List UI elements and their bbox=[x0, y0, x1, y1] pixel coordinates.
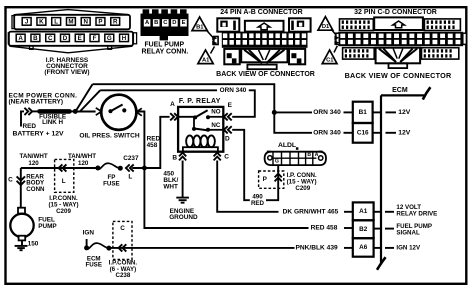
svg-text:24 PIN A-B CONNECTOR: 24 PIN A-B CONNECTOR bbox=[220, 9, 302, 16]
svg-text:BACK VIEW OF CONNECTOR: BACK VIEW OF CONNECTOR bbox=[216, 71, 315, 78]
label FP FUSE bbox=[103, 174, 120, 188]
wire junction to oil pressure switch bbox=[78, 111, 96, 113]
svg-text:WHT: WHT bbox=[163, 184, 178, 191]
svg-text:B: B bbox=[33, 35, 38, 42]
wire into A1 bbox=[344, 211, 353, 213]
label I.P.CONN. (15-WAY) C209 (below) bbox=[48, 195, 78, 215]
svg-text:G: G bbox=[275, 159, 279, 165]
svg-text:A1: A1 bbox=[202, 57, 210, 63]
svg-text:C238: C238 bbox=[116, 272, 131, 279]
svg-text:TAN/WHT: TAN/WHT bbox=[68, 153, 96, 160]
svg-text:FUSE: FUSE bbox=[85, 262, 102, 269]
svg-text:32 PIN C-D CONNECTOR: 32 PIN C-D CONNECTOR bbox=[354, 9, 437, 16]
ECM pin B2 box bbox=[353, 220, 374, 238]
svg-text:(FRONT VIEW): (FRONT VIEW) bbox=[44, 69, 89, 76]
svg-text:A: A bbox=[315, 152, 319, 158]
label IGN 12V bbox=[385, 244, 421, 251]
svg-text:F. P. RELAY: F. P. RELAY bbox=[179, 98, 221, 105]
svg-text:FUSE: FUSE bbox=[103, 180, 120, 187]
callout triangle B1 bbox=[192, 17, 213, 38]
wire B2 to ECM bbox=[374, 228, 381, 230]
wire relay C to ECM A1 (DK GRN/WHT 465) bbox=[217, 161, 278, 212]
relay pin E chevrons bbox=[224, 113, 228, 120]
label FUEL PUMP SIGNAL bbox=[385, 223, 432, 237]
connector I.P. harness row A-H bbox=[9, 32, 133, 46]
wire C237 to relay pin A bbox=[132, 117, 169, 168]
svg-text:B1: B1 bbox=[196, 24, 204, 30]
wire ORN 340 main riser diagonal bbox=[76, 84, 92, 110]
svg-text:BATTERY + 12V: BATTERY + 12V bbox=[13, 130, 65, 137]
svg-text:G: G bbox=[107, 35, 112, 42]
svg-text:RED: RED bbox=[251, 200, 265, 207]
fuse ECM FUSE bbox=[87, 243, 109, 249]
svg-text:C209: C209 bbox=[295, 185, 310, 192]
wire battery feed stub bbox=[21, 111, 24, 126]
connector I.P. conn C209 cavity L dashed box bbox=[55, 159, 74, 192]
oil pressure switch S1 bbox=[96, 95, 142, 130]
connector I.P. harness row J-R bbox=[14, 15, 130, 29]
wire fuel pump to ground 150 bbox=[21, 240, 23, 246]
svg-text:E: E bbox=[182, 20, 186, 26]
svg-text:ALDL: ALDL bbox=[278, 142, 296, 149]
svg-text:C209: C209 bbox=[56, 208, 71, 215]
ground fuel pump ground bbox=[15, 246, 28, 250]
svg-text:120: 120 bbox=[28, 160, 39, 167]
label ALDL bbox=[278, 142, 298, 150]
ground engine ground symbol bbox=[176, 198, 189, 203]
svg-text:B: B bbox=[172, 155, 177, 162]
label 490 RED bbox=[251, 194, 265, 208]
svg-text:D: D bbox=[63, 35, 68, 42]
wire relay B to engine ground bbox=[182, 161, 184, 198]
relay pin A chevrons bbox=[174, 113, 178, 120]
svg-text:ORN 340: ORN 340 bbox=[313, 109, 341, 116]
svg-text:D: D bbox=[225, 135, 230, 142]
svg-text:TAN/WHT: TAN/WHT bbox=[20, 153, 48, 160]
node battery junction bbox=[73, 109, 78, 114]
svg-text:B: B bbox=[307, 152, 311, 158]
label I.P. HARNESS CONNECTOR (FRONT VIEW) bbox=[44, 57, 89, 76]
svg-text:C1: C1 bbox=[326, 57, 334, 63]
wire rear body conn to fuel pump bbox=[20, 168, 22, 208]
svg-text:12V: 12V bbox=[398, 109, 411, 116]
connector I.P. conn C209 cavity L chevrons bbox=[59, 164, 63, 171]
svg-text:P: P bbox=[98, 18, 102, 25]
label RED 458 (vertical run) bbox=[147, 135, 161, 149]
svg-text:E: E bbox=[228, 102, 233, 109]
wire ORN 340 to C16 bbox=[274, 112, 312, 132]
callout triangle C1 bbox=[322, 46, 337, 64]
node FP fuse left bbox=[95, 166, 100, 171]
svg-text:A1: A1 bbox=[359, 208, 368, 215]
ECM boundary bracket bbox=[377, 87, 430, 270]
svg-text:C16: C16 bbox=[357, 129, 369, 136]
relay pin C chevrons bbox=[214, 153, 221, 157]
svg-text:E: E bbox=[78, 35, 82, 42]
svg-text:M: M bbox=[68, 18, 73, 25]
label 450 BLK/WHT bbox=[163, 171, 178, 191]
svg-text:K: K bbox=[39, 18, 44, 25]
svg-text:DK GRN/WHT 465: DK GRN/WHT 465 bbox=[283, 208, 339, 215]
connector 24 pin A-B (back view) bbox=[212, 18, 310, 69]
callout triangle A1 bbox=[198, 47, 215, 64]
fuse FP FUSE bbox=[98, 163, 120, 169]
label ECM FUSE bbox=[85, 255, 102, 268]
connector 32 pin C-D (back view) bbox=[334, 17, 466, 68]
wire ORN 340 to B1 bbox=[274, 111, 312, 113]
svg-text:NO: NO bbox=[211, 109, 220, 116]
ECM pin A1 box bbox=[353, 202, 374, 220]
wire B1 to ECM bbox=[373, 111, 381, 113]
wire IGN stub bbox=[86, 239, 88, 246]
svg-text:C237: C237 bbox=[123, 155, 139, 162]
svg-text:150: 150 bbox=[28, 241, 39, 248]
wire into A6 bbox=[344, 247, 353, 249]
connector I.P. conn C209 cavity P dashed box bbox=[259, 171, 284, 188]
svg-text:120: 120 bbox=[78, 160, 89, 167]
svg-text:L: L bbox=[62, 178, 66, 185]
label TAN/WHT 120 (right) bbox=[68, 153, 96, 167]
node ORN 340 branch junction bbox=[272, 110, 277, 115]
wire A1 to ECM bbox=[374, 211, 381, 213]
wire ORN 340 to relay pin E bbox=[232, 90, 255, 117]
svg-text:SIGNAL: SIGNAL bbox=[396, 230, 420, 237]
label TAN/WHT 120 (left) bbox=[20, 153, 48, 167]
wire A6 to ECM bbox=[374, 247, 381, 249]
wire 490 RED to I.P. conn P bbox=[266, 165, 278, 200]
label REAR BODY CONN bbox=[26, 174, 45, 193]
wire into C16 bbox=[344, 132, 353, 134]
svg-text:12V: 12V bbox=[398, 129, 411, 136]
label FUSIBLE LINK H bbox=[39, 114, 66, 127]
label 12V (B1) bbox=[386, 109, 411, 116]
node ECM fuse right bbox=[106, 246, 111, 251]
svg-text:A: A bbox=[18, 35, 23, 42]
svg-text:F: F bbox=[93, 35, 97, 42]
label 12V (C16) bbox=[386, 129, 411, 136]
wire into B1 bbox=[344, 111, 353, 113]
svg-text:FUEL PUMP: FUEL PUMP bbox=[144, 41, 184, 48]
svg-text:RELAY DRIVE: RELAY DRIVE bbox=[396, 210, 437, 217]
svg-text:C: C bbox=[48, 35, 53, 42]
svg-text:C: C bbox=[120, 225, 125, 232]
wire fusible link to junction bbox=[70, 110, 76, 112]
svg-text:D: D bbox=[172, 20, 176, 26]
svg-text:RED 458: RED 458 bbox=[311, 225, 338, 232]
wire ORN 340 label branch bbox=[100, 89, 217, 91]
svg-text:(NEAR BATTERY): (NEAR BATTERY) bbox=[9, 99, 64, 106]
callout triangle D1 bbox=[318, 17, 337, 36]
label FUEL PUMP bbox=[38, 217, 57, 230]
svg-text:N: N bbox=[83, 18, 88, 25]
svg-text:NC: NC bbox=[211, 122, 220, 129]
connector I.P. harness (front view) shell bbox=[8, 10, 136, 53]
svg-text:RELAY CONN.: RELAY CONN. bbox=[142, 49, 189, 56]
wire TAN/WHT 120 bbox=[21, 167, 98, 169]
label ECM POWER CONN. (NEAR BATTERY) bbox=[9, 92, 78, 105]
ECM pin A6 box bbox=[353, 238, 374, 257]
svg-text:PUMP: PUMP bbox=[38, 223, 57, 230]
svg-text:B2: B2 bbox=[359, 226, 368, 233]
svg-text:PNK/BLK 439: PNK/BLK 439 bbox=[296, 244, 338, 251]
svg-text:IGN: IGN bbox=[83, 230, 95, 237]
svg-text:ORN 340: ORN 340 bbox=[313, 129, 341, 136]
label 12 VOLT RELAY DRIVE bbox=[385, 204, 437, 218]
svg-text:ORN 340: ORN 340 bbox=[220, 87, 247, 94]
svg-text:A6: A6 bbox=[359, 244, 368, 251]
svg-text:J: J bbox=[25, 18, 29, 25]
ECM pin C16 box bbox=[353, 123, 373, 143]
svg-text:P: P bbox=[263, 176, 268, 183]
svg-text:C: C bbox=[8, 176, 13, 183]
label I.P.CONN. (6-WAY) C238 bbox=[109, 260, 138, 280]
svg-text:B: B bbox=[154, 20, 158, 26]
wire oil switch to RED 458 riser bbox=[136, 112, 144, 169]
label I.P. CONN. (15-WAY) C209 (right) bbox=[287, 172, 317, 192]
connector ECM power conn chevrons bbox=[28, 108, 32, 115]
connector C237 chevrons bbox=[126, 164, 130, 171]
wire relay D to 490 RED run bbox=[232, 130, 250, 200]
svg-text:R: R bbox=[113, 18, 118, 25]
svg-text:D1: D1 bbox=[322, 24, 330, 30]
svg-text:LINK H: LINK H bbox=[42, 119, 63, 126]
connector I.P. conn C238 chevrons bbox=[119, 244, 123, 251]
svg-text:A: A bbox=[170, 101, 175, 108]
connector I.P. conn C209 cavity P chevrons bbox=[275, 174, 282, 178]
wire RED 458 to ECM B2 bbox=[144, 168, 308, 228]
svg-text:B1: B1 bbox=[359, 109, 368, 116]
relay pin D chevrons bbox=[224, 126, 228, 133]
motor fuel pump M1 bbox=[10, 208, 33, 241]
relay K1 F.P. RELAY box and contacts bbox=[178, 107, 223, 152]
connector fuel pump relay (5-way A-E) bbox=[141, 9, 189, 40]
svg-text:GROUND: GROUND bbox=[169, 214, 198, 221]
label FUEL PUMP RELAY CONN. bbox=[142, 41, 189, 55]
svg-text:458: 458 bbox=[147, 142, 158, 149]
label ENGINE GROUND bbox=[169, 208, 198, 221]
wire ORN 340 label branch diagonal bbox=[80, 90, 100, 111]
wire ECM fuse to ECM A6 (PNK/BLK 439) bbox=[109, 247, 295, 249]
connector ALDL diagnostic bbox=[265, 151, 326, 166]
relay pin B chevrons bbox=[179, 153, 186, 157]
svg-text:IGN 12V: IGN 12V bbox=[396, 244, 421, 251]
wire into B2 bbox=[344, 227, 353, 229]
svg-text:OIL PRES. SWITCH: OIL PRES. SWITCH bbox=[79, 132, 140, 139]
connector rear body conn chevrons bbox=[17, 181, 25, 185]
fusible link H bbox=[40, 109, 70, 114]
ECM pin B1 box bbox=[353, 102, 373, 123]
svg-text:L: L bbox=[54, 18, 58, 25]
node RED 458 junction bbox=[142, 166, 147, 171]
svg-text:C: C bbox=[224, 154, 229, 161]
svg-text:RED: RED bbox=[23, 123, 37, 130]
svg-text:CONN: CONN bbox=[26, 186, 45, 193]
node ECM fuse left bbox=[84, 245, 89, 250]
svg-text:L: L bbox=[128, 174, 132, 181]
connector I.P. conn C238 dashed box bbox=[113, 221, 132, 259]
wire ORN 340 main horizontal bbox=[93, 84, 275, 112]
wire to fusible link bbox=[32, 110, 39, 112]
svg-text:H: H bbox=[122, 35, 127, 42]
node FP fuse right bbox=[118, 166, 123, 171]
svg-text:ECM: ECM bbox=[392, 87, 408, 94]
svg-text:BACK VIEW OF CONNECTOR: BACK VIEW OF CONNECTOR bbox=[345, 71, 452, 80]
wire C16 to ECM bbox=[373, 132, 381, 134]
